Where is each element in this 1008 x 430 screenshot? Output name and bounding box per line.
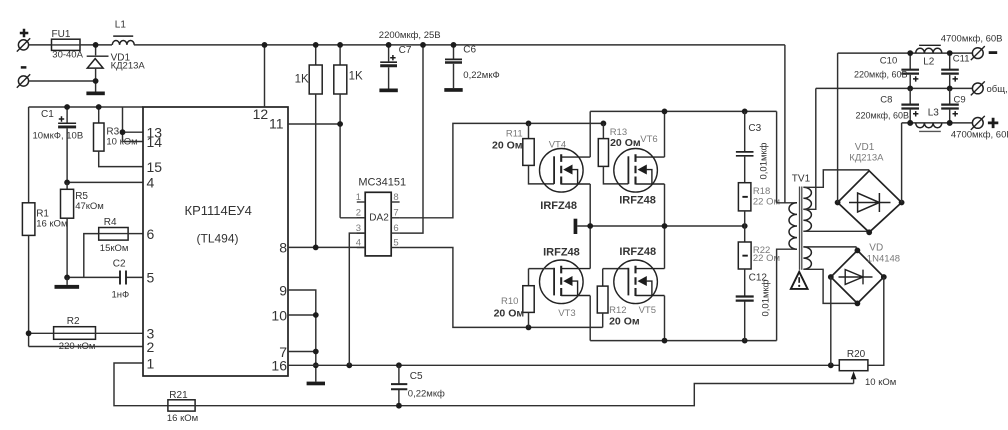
svg-text:220мкф, 60В: 220мкф, 60В: [856, 111, 910, 121]
svg-text:VT5: VT5: [639, 305, 656, 316]
svg-text:IRFZ48: IRFZ48: [619, 194, 656, 206]
bridge rectifier VD1 (КД213А): [838, 171, 902, 233]
svg-text:20 Ом: 20 Ом: [609, 316, 640, 328]
wire FU1 to L1: [80, 44, 112, 46]
VREF rail y=107: [29, 106, 143, 108]
junction pin5/R5 node: [64, 275, 70, 281]
svg-text:C1: C1: [41, 109, 54, 120]
half-bridge mid node wire: [577, 225, 744, 227]
svg-text:1K: 1K: [295, 73, 309, 85]
wire pin 1 to R21: [114, 363, 168, 406]
svg-text:6: 6: [147, 226, 155, 242]
TV1 core: [799, 187, 801, 270]
svg-text:30-40A: 30-40A: [52, 49, 83, 60]
svg-text:R4: R4: [104, 217, 117, 228]
svg-text:КД213А: КД213А: [111, 60, 146, 71]
resistor 1K (left): [315, 45, 317, 65]
output common terminal: [972, 83, 983, 94]
svg-text:C2: C2: [113, 259, 126, 270]
svg-text:L2: L2: [923, 57, 935, 68]
TV1 secondary 2 top lead: [803, 247, 857, 251]
svg-text:20 Ом: 20 Ом: [494, 308, 525, 320]
svg-text:15кОм: 15кОм: [100, 243, 129, 254]
svg-text:C8: C8: [880, 95, 892, 106]
resistor R4 (15кОм): [84, 234, 99, 278]
svg-text:КД213А: КД213А: [849, 152, 884, 163]
transistor VT6 IRFZ48: [614, 149, 665, 193]
svg-text:R12: R12: [609, 305, 626, 316]
svg-text:DA2: DA2: [369, 213, 389, 224]
svg-text:16 кОм: 16 кОм: [167, 413, 198, 424]
resistor R18 (22 Ом): [738, 183, 751, 211]
diode VD1 (input, КД213А): [95, 45, 97, 55]
inductor L2: [916, 48, 942, 53]
output plus rail: [902, 122, 973, 124]
junction R3 top: [96, 104, 102, 110]
wire pin 12 to rail: [264, 45, 266, 107]
output minus terminal: [972, 48, 983, 59]
svg-text:C10: C10: [880, 56, 897, 67]
svg-text:R18: R18: [753, 186, 770, 197]
svg-text:C5: C5: [410, 371, 423, 382]
wire pins 9/10/7/16 common vertical: [288, 290, 316, 382]
junction VD1 top: [93, 42, 99, 48]
fuse FU1: [52, 39, 81, 50]
wire bridge VD1 minus output up: [837, 53, 839, 202]
svg-text:6: 6: [393, 223, 398, 234]
svg-text:3: 3: [356, 223, 361, 234]
TV1 secondary winding 2: [803, 247, 811, 269]
svg-text:C3: C3: [748, 123, 761, 134]
junction VD1 anode: [93, 78, 99, 84]
wire + input to FU1: [29, 44, 52, 46]
resistor R12 (20 Ом): [603, 269, 629, 287]
svg-text:R21: R21: [169, 390, 188, 401]
IC U1 КР1114ЕУ4 (TL494) box: [143, 107, 288, 376]
svg-text:15: 15: [147, 159, 163, 175]
svg-text:9: 9: [279, 282, 287, 298]
svg-text:4: 4: [356, 237, 361, 248]
svg-text:4700мкф, 60В: 4700мкф, 60В: [951, 130, 1008, 141]
svg-text:16 кОм: 16 кОм: [36, 219, 67, 230]
svg-text:20 Ом: 20 Ом: [610, 137, 641, 149]
svg-text:C6: C6: [463, 45, 476, 56]
svg-text:1: 1: [356, 192, 361, 203]
ground under R5 node: [66, 277, 68, 285]
svg-text:12: 12: [253, 106, 269, 122]
output minus rail: [838, 52, 973, 54]
svg-text:1нФ: 1нФ: [112, 289, 130, 300]
svg-text:TV1: TV1: [792, 174, 811, 185]
svg-text:L1: L1: [115, 20, 127, 31]
svg-text:4: 4: [147, 175, 155, 191]
svg-text:0,01мкф: 0,01мкф: [760, 279, 771, 316]
input terminal - (minus): [21, 66, 27, 69]
svg-text:0,22мкФ: 0,22мкФ: [463, 70, 499, 81]
TV1 secondary winding 1: [803, 187, 811, 231]
resistor R3 (10 кОм): [98, 107, 100, 123]
R20 wiper arrow: [851, 371, 857, 379]
svg-text:L3: L3: [928, 107, 940, 118]
svg-text:FU1: FU1: [52, 29, 71, 40]
junction C1 top: [64, 104, 70, 110]
TV1 secondary 2 bottom lead: [803, 269, 857, 303]
svg-text:7: 7: [393, 208, 398, 219]
source rail bottom MOSFETs: [590, 340, 776, 342]
svg-text:2200мкф, 25В: 2200мкф, 25В: [379, 30, 441, 41]
svg-text:VT6: VT6: [640, 134, 657, 145]
svg-text:IRFZ48: IRFZ48: [619, 246, 656, 258]
svg-text:5: 5: [147, 270, 155, 286]
svg-text:10: 10: [271, 307, 287, 323]
wire bridge VD left to rail16: [830, 277, 832, 365]
capacitor C8 (220мкф, 60В): [909, 88, 911, 104]
svg-text:4700мкф, 60В: 4700мкф, 60В: [941, 33, 1003, 44]
resistor R22 (22 Ом): [738, 242, 751, 269]
svg-text:1: 1: [147, 355, 155, 371]
svg-text:10мкФ, 10В: 10мкФ, 10В: [33, 130, 84, 141]
svg-text:2: 2: [147, 339, 155, 355]
resistor 1K (right): [339, 45, 341, 65]
IC DA2 MC34151 box: [365, 192, 391, 256]
svg-text:8: 8: [279, 240, 287, 256]
resistor R13 (20 Ом): [602, 123, 604, 138]
svg-text:1N4148: 1N4148: [867, 254, 900, 265]
TV1 secondary 1 top lead: [803, 170, 869, 187]
svg-text:5: 5: [393, 237, 398, 248]
svg-text:VT4: VT4: [549, 139, 566, 150]
svg-text:IRFZ48: IRFZ48: [540, 200, 577, 212]
inductor L1: [112, 41, 134, 45]
capacitor C1 (10мкФ, 10В): [66, 107, 68, 123]
transistor VT5 IRFZ48: [614, 260, 665, 304]
svg-text:16: 16: [271, 358, 287, 374]
junction pin13 wire: [120, 129, 126, 135]
transistor VT4 IRFZ48: [540, 149, 591, 193]
svg-text:0,01мкф: 0,01мкф: [759, 142, 770, 179]
svg-text:0,22мкф: 0,22мкф: [408, 389, 445, 400]
junction 1K right rail: [337, 42, 343, 48]
wire DA2 pin6 to rail: [400, 45, 423, 233]
svg-text:8: 8: [393, 192, 398, 203]
svg-text:VD1: VD1: [855, 142, 875, 153]
svg-text:C9: C9: [954, 95, 966, 106]
svg-text:20 Ом: 20 Ом: [492, 140, 523, 152]
wire pin 4: [67, 181, 143, 183]
pin 16 current-sense rail: [288, 364, 839, 366]
capacitor C9 (4700мкф, 60В): [949, 88, 951, 104]
svg-text:R2: R2: [67, 316, 80, 327]
output plus terminal: [972, 118, 983, 129]
svg-text:11: 11: [269, 116, 284, 132]
wire pins 13/14 tie: [123, 107, 144, 142]
inductor L3: [916, 123, 942, 128]
wire DA2 pin7 upper gate drive: [400, 123, 604, 217]
TV1 primary winding: [777, 202, 797, 204]
svg-text:2: 2: [356, 208, 361, 219]
wire DA2 pin2: [340, 217, 365, 219]
svg-text:220мкф, 60В: 220мкф, 60В: [854, 69, 908, 79]
junction R1/R2 node: [26, 330, 32, 336]
transformer TV1 primary feed from main rail: [784, 45, 786, 203]
junction pin12 rail: [262, 42, 268, 48]
svg-text:MC34151: MC34151: [358, 176, 406, 188]
svg-text:1K: 1K: [349, 70, 363, 82]
svg-text:VD: VD: [869, 242, 883, 253]
svg-text:C11: C11: [953, 53, 970, 64]
resistor R5 (47кОм): [66, 182, 68, 189]
junction 1K left rail: [313, 42, 319, 48]
capacitor C2 (1нФ) and pin5 wire: [67, 276, 143, 278]
wire bridge VD right to R20: [868, 277, 884, 365]
main +12V rail: [134, 44, 785, 46]
mid node bar terminal: [574, 219, 578, 234]
TV1 secondary 1 bottom lead: [803, 231, 869, 232]
svg-text:IRFZ48: IRFZ48: [543, 247, 580, 259]
svg-text:10 кОм: 10 кОм: [865, 377, 896, 388]
resistor R11 (20 Ом): [528, 123, 530, 138]
junction pin 4 node: [64, 180, 70, 186]
svg-text:R20: R20: [847, 349, 866, 360]
TV1 secondary 1 center tap to common: [803, 88, 815, 209]
wire DA2 pin5 lower gate drive: [400, 248, 603, 328]
wire pin 11 to DA2 pin2 vertical: [288, 123, 340, 125]
resistor R1 (16 кОм): [22, 203, 35, 236]
transformer TV1 primary feed from drain rail: [776, 111, 778, 202]
bottom feedback rail: [195, 384, 854, 406]
resistor R21 (16 кОм): [168, 400, 195, 411]
capacitor C10 (220мкф, 60В): [909, 53, 911, 69]
ground under pin7 vertical: [307, 382, 325, 386]
svg-text:R10: R10: [501, 296, 518, 307]
svg-text:14: 14: [147, 134, 163, 150]
warning triangle: [791, 272, 808, 289]
wire - input to VD1 anode node: [29, 80, 96, 82]
wire R1 top vertical: [28, 107, 30, 203]
capacitor C12 (0,01мкф): [736, 295, 754, 297]
svg-text:КР1114ЕУ4: КР1114ЕУ4: [185, 203, 252, 218]
output common rail: [816, 87, 973, 89]
bridge rectifier VD (1N4148): [831, 250, 884, 303]
resistor R2 (220 кОм): [29, 332, 54, 334]
drain rail top MOSFETs: [590, 110, 776, 112]
wire DA2 pin3 to rail16: [349, 233, 365, 365]
svg-text:47кОм: 47кОм: [75, 201, 104, 212]
svg-text:VT3: VT3: [558, 308, 575, 319]
svg-text:общ,: общ,: [987, 84, 1008, 95]
wire pin 2: [29, 346, 143, 348]
capacitor C6 (0,22мкФ): [453, 45, 455, 59]
wire bridge VD1 plus output up: [901, 123, 903, 203]
transistor VT3 IRFZ48: [540, 260, 591, 304]
svg-text:(TL494): (TL494): [197, 232, 239, 246]
DA2 pin stubs and numbers: [357, 201, 365, 203]
capacitor C5 (0,22мкф): [398, 365, 400, 383]
ground under VD1: [86, 92, 104, 96]
capacitor C7 (2200мкф, 25В): [388, 45, 390, 62]
svg-text:R11: R11: [506, 129, 523, 140]
potentiometer R20 (10 кОм): [839, 364, 868, 366]
resistor R10 (20 Ом): [528, 269, 530, 286]
capacitor C3 (0,01мкф): [744, 111, 746, 151]
svg-text:C7: C7: [399, 45, 412, 56]
input terminal + (plus): [20, 29, 29, 37]
capacitor C11 (4700мкф, 60В): [949, 53, 951, 69]
wire pin 8 to DA2 pin4: [288, 246, 365, 248]
